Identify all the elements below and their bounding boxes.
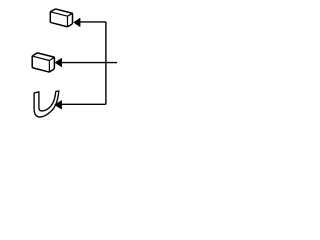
- arrow to part 1: [74, 18, 80, 26]
- wire from vertical bus to arrow 3: [61, 103, 106, 105]
- arrow to part 2: [55, 59, 61, 67]
- wire through arrow 2 extending right: [61, 62, 117, 64]
- vertical bus wire: [105, 22, 107, 104]
- U-channel part (bottom bent strip): [34, 91, 59, 117]
- box part 2 (middle isometric bar): [32, 53, 54, 72]
- box part 1 (top isometric bar): [50, 9, 72, 27]
- arrow to part 3: [55, 101, 62, 109]
- wire from arrow 1 to vertical bus: [80, 21, 106, 23]
